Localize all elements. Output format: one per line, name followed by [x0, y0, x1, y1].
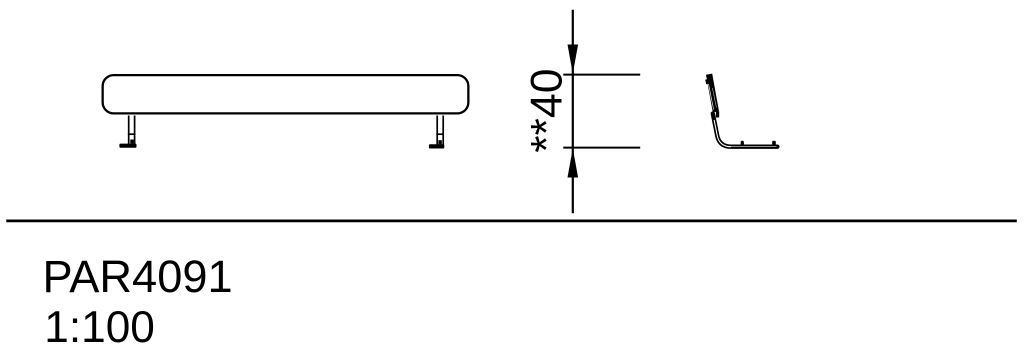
side view knob 1	[741, 141, 744, 146]
svg-text:**40: **40	[522, 68, 571, 152]
svg-text:PAR4091: PAR4091	[43, 251, 233, 302]
left leg	[119, 116, 136, 148]
label PAR4091	[43, 251, 233, 302]
dimension line vertical	[572, 10, 574, 214]
side view backrest top nub	[706, 80, 707, 85]
svg-text:1:100: 1:100	[44, 303, 155, 352]
dimension arrow top (pointing down)	[568, 45, 579, 74]
side view board bottom step	[716, 111, 719, 117]
label scale 1:100	[44, 303, 155, 352]
side view backrest board	[709, 74, 717, 112]
dimension arrow bottom (pointing up)	[568, 148, 579, 177]
side view knob 2	[772, 141, 776, 146]
bench seat front view outline	[103, 75, 469, 113]
separator line	[6, 220, 1017, 223]
dimension text **40 (rotated)	[522, 68, 571, 152]
extension line bottom	[563, 147, 640, 149]
right leg	[429, 116, 444, 149]
side view frame tube	[713, 114, 778, 147]
extension line top	[563, 74, 640, 76]
